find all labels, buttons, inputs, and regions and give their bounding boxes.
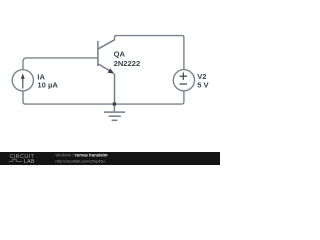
svg-text:5 V: 5 V [197, 81, 209, 90]
svg-text:2N2222: 2N2222 [114, 59, 141, 68]
svg-text:QA: QA [114, 50, 126, 59]
svg-text:LAB: LAB [24, 159, 35, 165]
svg-text:10 µA: 10 µA [37, 80, 58, 89]
svg-text:V2: V2 [197, 72, 206, 81]
svg-text:windows / curvas transistor: windows / curvas transistor [56, 153, 109, 158]
svg-text:http://circuitlab.com/c/5xp45u: http://circuitlab.com/c/5xp45u [56, 160, 105, 164]
